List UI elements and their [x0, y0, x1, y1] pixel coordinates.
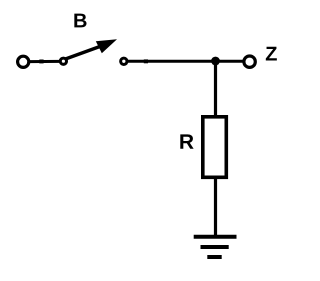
wire: left terminal to switch pivot — [30, 60, 60, 63]
resistor R — [203, 117, 227, 178]
wire: switch contact to node Z — [128, 60, 244, 63]
switch B pivot contact — [60, 58, 66, 64]
wire: resistor R to ground — [214, 177, 217, 237]
label R — [180, 134, 193, 148]
wire joint (left segment overlap) — [39, 60, 43, 64]
label B — [74, 14, 86, 28]
label Z — [266, 47, 277, 61]
junction (node Z / resistor tap) — [211, 57, 220, 66]
terminal Z — [244, 56, 255, 67]
terminal (left input) — [18, 56, 29, 67]
wire joint (right segment overlap) — [144, 59, 148, 63]
switch B blade (arrow) — [66, 39, 117, 59]
ground — [194, 237, 237, 257]
wire: junction to resistor R — [214, 61, 217, 117]
switch B right contact — [121, 58, 127, 64]
